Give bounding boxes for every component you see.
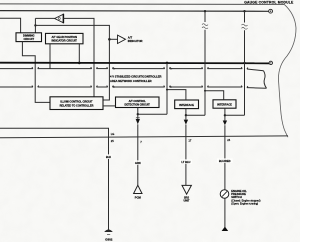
wire: illumi box to A/T control box: [103, 105, 116, 107]
junction node on L2 at x=244.5: [243, 10, 245, 12]
column 1: ground wire from bus W: [0, 128, 109, 230]
junction node at (79.3,62.9): [78, 62, 81, 65]
scan noise overlay: [0, 0, 1, 1]
terminal circle (top right): [269, 9, 273, 13]
wire: to A/T indicator triangle: [109, 38, 117, 40]
indicator lamp triangle (top, pointing left): [55, 14, 64, 23]
continuation arrow to SRS unit (open triangle down): [182, 185, 191, 194]
arrow (signal direction): [223, 121, 227, 126]
terminal circle (right, mid): [269, 61, 272, 64]
wire color LT BLU: [180, 159, 192, 163]
wire color BLU/RED: [217, 158, 233, 162]
stub joining feed x=244.5: [225, 114, 245, 116]
gauge control module boundary (top edge): [0, 3, 284, 6]
interface box 1: [175, 100, 199, 109]
ground symbol G802: [104, 230, 113, 233]
CAN controller box bottom edge (with crossover breaks): [0, 86, 267, 89]
junction node at (167,62.9): [166, 62, 169, 65]
dimming circuit box: [16, 33, 42, 42]
wire break squiggle at (244.5,26.5): [242, 24, 248, 29]
arrow (signal direction): [136, 119, 140, 124]
wire color GRN: [134, 160, 142, 164]
wire: A/T gear box right output to dark bus: [78, 44, 80, 63]
wire: into lamp from left: [35, 17, 54, 19]
wire color BLK: [105, 154, 113, 159]
junction node at (110,40.7): [108, 38, 111, 41]
interface box 2: [213, 100, 236, 108]
stub joining feed x=167: [138, 113, 167, 115]
feed wire from dark bus down (x=167): [166, 63, 168, 114]
junction node on L2 at x=205: [204, 10, 206, 12]
module connector boundary (bottom edge): [0, 136, 288, 138]
wire: vertical into dimming box top: [34, 18, 36, 32]
junction node at (244.5,62.9): [243, 62, 245, 64]
wire: lamp output to drop at x=94: [63, 18, 94, 96]
CAN controller box top edge (with crossover breaks): [0, 67, 264, 71]
wire: A/T gear box left output to CAN box: [49, 44, 51, 69]
A/T gear position indicator circuit box: [46, 33, 84, 43]
jog wire into interface 2 top: [205, 91, 224, 100]
chassis ground (filled triangle): [222, 227, 229, 231]
CAN controller box torn right edge: [264, 71, 267, 89]
feed wire from L2 down (x=244.5) with break symbol: [244, 11, 246, 22]
feed wire from L2 down (x=205) with break symbol: [204, 11, 206, 22]
wire down to PCM: [137, 124, 139, 185]
column 2: A/T control detection output: [137, 108, 139, 120]
A/T indicator triangle (pointing right): [118, 35, 126, 43]
wire: line E under lamp to drop at x=110: [35, 25, 109, 100]
wire break squiggle at (205,26): [202, 24, 208, 29]
A/T control detection circuit box: [116, 97, 160, 108]
column 3: interface 1 output: [185, 108, 187, 119]
junction node at (35.4,25.4): [34, 24, 36, 26]
continuation arrow to PCM (open triangle): [134, 185, 142, 193]
wire: left branch to dimming circuit: [0, 18, 21, 33]
wire down to SRS unit: [185, 125, 187, 186]
column 4: interface 2 output: [224, 108, 226, 120]
engine oil pressure switch (circle with contact): [220, 190, 229, 199]
gauge control module torn right edge: [278, 4, 296, 137]
jog wire into interface 1 top: [167, 90, 186, 100]
stub joining feed x=205: [186, 114, 205, 116]
wire: dimming box output down-jog to illumi box: [22, 42, 50, 103]
arrow (signal direction): [184, 120, 188, 125]
dark bus wire to terminal 2: [0, 62, 269, 65]
flow arrows on CAN box edges: [114, 68, 174, 88]
wire down to oil pressure switch: [224, 125, 226, 228]
illumi control circuit box: [50, 97, 103, 110]
wire: top bus L2 to terminal: [0, 10, 269, 13]
